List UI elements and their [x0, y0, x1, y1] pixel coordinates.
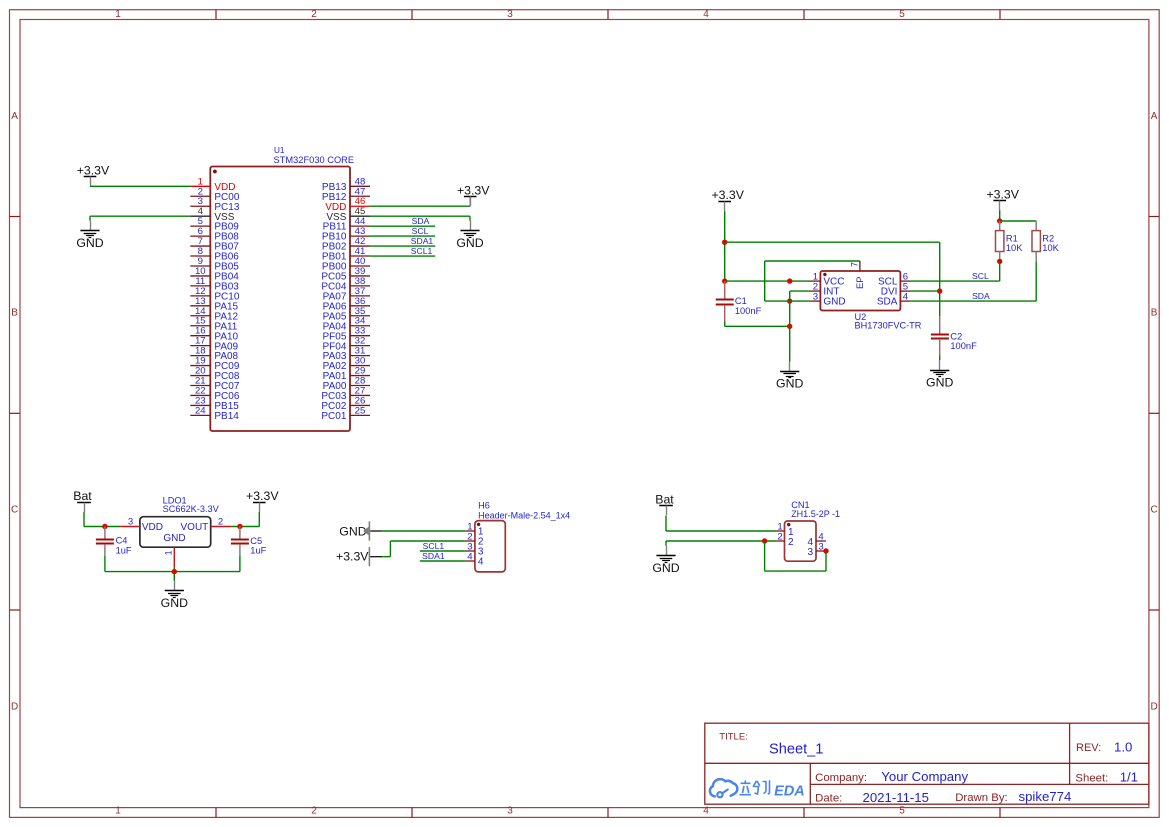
- U1 pin 29 PA01 (right): [323, 366, 370, 383]
- node junction pull-up rail: [997, 218, 1002, 223]
- svg-text:A: A: [11, 111, 18, 122]
- svg-text:1uF: 1uF: [116, 545, 132, 555]
- U1 pin 36 PA06 (right): [323, 296, 370, 313]
- U1 pin 24 PB14 (left): [190, 405, 239, 422]
- svg-text:1.0: 1.0: [1114, 740, 1132, 755]
- svg-text:U1: U1: [274, 146, 285, 155]
- node junction CN1 pin 3: [823, 548, 828, 553]
- column tick bottom 2: [411, 808, 413, 818]
- power +3.3V (sensor supply): [711, 188, 744, 211]
- U1 pin 30 PA02 (right): [323, 356, 370, 373]
- wire C2 to GND: [939, 356, 941, 361]
- svg-text:100nF: 100nF: [735, 306, 762, 316]
- svg-text:3: 3: [813, 291, 818, 302]
- ground GND (U1 left): [76, 221, 103, 250]
- svg-text:spike774: spike774: [1019, 789, 1072, 804]
- wire Bat to CN1 pin 1: [666, 516, 775, 532]
- svg-text:5: 5: [899, 806, 905, 817]
- svg-text:EDA: EDA: [773, 784, 807, 800]
- U1 pin 38 PC04 (right): [321, 276, 370, 293]
- ground GND (CN1): [652, 546, 679, 575]
- U1 pin 17 PA09 (left): [190, 336, 238, 353]
- U1 pin 39 PC05 (right): [321, 266, 370, 283]
- U1 pin 15 PA11 (left): [190, 316, 238, 333]
- wire U2 pin 2 INT loop: [790, 291, 811, 301]
- power flag Bat (LDO input): [73, 489, 92, 512]
- wire rail to R2: [1000, 220, 1036, 222]
- wire R2 to SDA net: [910, 262, 1036, 301]
- wire C5 to ground rail: [239, 556, 241, 572]
- wire EP loop: [765, 261, 860, 301]
- wire Bat to LDO VDD: [84, 512, 120, 527]
- svg-text:SCL1: SCL1: [411, 246, 433, 256]
- LDO1 pin 1 GND (bottom): [164, 547, 175, 567]
- column tick bottom 3: [607, 808, 609, 818]
- node junction at ground rail: [787, 324, 792, 329]
- svg-text:BH1730FVC-TR: BH1730FVC-TR: [855, 320, 922, 330]
- U1 pin 13 PA15 (left): [190, 296, 238, 313]
- capacitor C4 1uF: [96, 527, 132, 557]
- ground GND (U1 right): [456, 221, 483, 250]
- power flag Bat (CN1): [655, 493, 674, 515]
- svg-text:GND: GND: [161, 596, 188, 610]
- U1 pin 5 PB09 (left): [190, 216, 239, 233]
- wire top rail to DVI vertical: [725, 242, 940, 316]
- svg-text:+3.3V: +3.3V: [711, 188, 744, 202]
- node junction CN1 pin2 loop: [762, 538, 767, 543]
- U1 pin 27 PC03 (right): [321, 385, 370, 402]
- title block row divider 1: [705, 762, 1149, 764]
- svg-text:4: 4: [903, 291, 909, 302]
- U2 pin 5 DVI (right): [881, 281, 911, 297]
- svg-text:Sheet_1: Sheet_1: [769, 742, 823, 758]
- svg-text:H6: H6: [478, 501, 490, 511]
- column tick top 3: [607, 10, 609, 20]
- wire middle vertical to GND symbol: [789, 301, 791, 361]
- EasyEDA logo text 立创: [740, 780, 770, 794]
- wire LDO VOUT to +3.3V: [231, 512, 260, 527]
- svg-text:STM32F030 CORE: STM32F030 CORE: [274, 155, 355, 165]
- svg-text:C: C: [11, 504, 18, 515]
- svg-text:Bat: Bat: [655, 493, 674, 507]
- ground GND (C2): [926, 360, 953, 389]
- power +3.3V (pull-ups): [986, 187, 1019, 210]
- power +3.3V (U1 pin 46): [457, 184, 490, 207]
- capacitor C2 100nF: [931, 316, 977, 355]
- svg-text:SCL: SCL: [412, 226, 429, 236]
- U1 pin 25 PC01 (right): [321, 405, 370, 422]
- wire +3.3V port to H6 pin 2: [382, 541, 465, 557]
- svg-text:SCL: SCL: [972, 271, 989, 281]
- U1 pin 43 PB10 (right): [322, 226, 370, 243]
- wire LDO ground rail: [105, 567, 240, 581]
- U2 pin 1 VCC (left): [810, 271, 844, 287]
- svg-text:GND: GND: [776, 377, 803, 391]
- U1 pin 8 PB06 (left): [190, 246, 239, 263]
- column tick bottom 4: [803, 808, 805, 818]
- wire U1 pin net SDA: [370, 225, 435, 227]
- U1 pin 18 PA08 (left): [190, 346, 238, 363]
- svg-text:GND: GND: [823, 297, 845, 308]
- svg-text:REV:: REV:: [1076, 742, 1101, 754]
- svg-text:VDD: VDD: [142, 522, 163, 533]
- wire +3.3V to U1 pin 1: [90, 185, 190, 187]
- wire U1 pin net SDA1: [370, 245, 435, 247]
- LDO1 pin 3 VDD: [120, 517, 163, 534]
- svg-text:2: 2: [311, 806, 317, 817]
- svg-text:Sheet:: Sheet:: [1075, 773, 1108, 785]
- op-amp U2 body BH1730FVC-TR: [820, 271, 900, 311]
- LDO1 pin 2 VOUT: [181, 517, 231, 534]
- svg-text:4: 4: [467, 551, 473, 562]
- svg-text:10K: 10K: [1006, 243, 1023, 253]
- capacitor C1 100nF: [716, 281, 762, 321]
- node junction GND wire: [787, 298, 792, 303]
- connector H6 body Header-Male-2.54_1x4: [475, 521, 505, 572]
- column tick top 1: [215, 10, 217, 20]
- node junction R1 bottom: [997, 259, 1002, 264]
- svg-text:3: 3: [818, 541, 823, 552]
- U1 pin 1 VDD (left): [190, 176, 235, 193]
- svg-text:7: 7: [849, 262, 859, 267]
- U1 pin 6 PB08 (left): [190, 226, 239, 243]
- svg-text:1uF: 1uF: [250, 546, 266, 556]
- node junction LDO ground: [172, 569, 177, 574]
- column tick top 5: [999, 10, 1001, 20]
- svg-text:GND: GND: [926, 375, 953, 389]
- svg-text:SDA1: SDA1: [411, 236, 434, 246]
- svg-text:2: 2: [218, 517, 223, 528]
- svg-text:4: 4: [703, 806, 709, 817]
- row tick right A/B: [1149, 216, 1159, 218]
- svg-text:3: 3: [128, 517, 133, 528]
- U1 pin 11 PB03 (left): [190, 276, 239, 293]
- title block row divider 2: [810, 783, 1149, 785]
- svg-text:Header-Male-2.54_1x4: Header-Male-2.54_1x4: [478, 511, 570, 521]
- svg-text:+3.3V: +3.3V: [986, 187, 1019, 201]
- row tick right B/C: [1149, 412, 1159, 414]
- row tick left A/B: [10, 216, 21, 218]
- svg-text:3: 3: [507, 9, 513, 20]
- U1 pin 31 PA03 (right): [323, 346, 370, 363]
- svg-text:GND: GND: [76, 236, 103, 250]
- wire U1 pin net SCL: [370, 235, 435, 237]
- wire C1 bottom to ground rail: [725, 321, 790, 326]
- U1 pin 41 PB01 (right): [322, 246, 370, 263]
- svg-text:Date:: Date:: [815, 793, 842, 805]
- svg-text:4: 4: [703, 9, 709, 20]
- node junction at top rail: [722, 240, 727, 245]
- capacitor C5 1uF: [231, 527, 267, 557]
- svg-text:4: 4: [478, 557, 484, 568]
- U1 pin 2 PC00 (left): [190, 186, 240, 203]
- U1 pin 47 PB12 (right): [322, 186, 370, 203]
- svg-text:5: 5: [899, 9, 905, 20]
- svg-text:VOUT: VOUT: [181, 522, 209, 533]
- title block rev/sheet column divider: [1069, 723, 1071, 784]
- U1 pin 45 VSS (right): [326, 206, 370, 223]
- U1 pin 7 PB07 (left): [190, 236, 239, 253]
- svg-text:GND: GND: [652, 561, 679, 575]
- power +3.3V (LDO output): [246, 489, 279, 512]
- ground GND (U2): [776, 362, 803, 391]
- column tick top 2: [411, 10, 413, 20]
- svg-text:SDA: SDA: [877, 297, 898, 308]
- svg-text:2: 2: [788, 537, 794, 548]
- wire net SDA1 to H6 pin 4: [420, 560, 465, 562]
- svg-text:B: B: [11, 308, 18, 319]
- node junction VCC branch: [722, 278, 727, 283]
- U1 pin 12 PC10 (left): [190, 286, 240, 303]
- voltage regulator LDO1 SC662K-3.3V body: [140, 517, 211, 548]
- wire +3.3V to resistor rail: [999, 210, 1001, 221]
- wire R1 to SCL net: [910, 261, 999, 281]
- svg-text:+3.3V: +3.3V: [77, 164, 110, 178]
- title block outline: [705, 723, 1149, 804]
- row tick left C/D: [10, 609, 21, 611]
- svg-text:100nF: 100nF: [950, 341, 977, 351]
- column tick bottom 1: [215, 808, 217, 818]
- EasyEDA logo cloud: [710, 779, 737, 797]
- U1 pin 14 PA12 (left): [190, 306, 238, 323]
- H6 pin 2: [465, 531, 484, 547]
- svg-text:GND: GND: [339, 524, 366, 538]
- row tick left B/C: [10, 412, 21, 414]
- wire CN1 pin 3 loop to pin 2 net: [765, 541, 826, 571]
- wire GND port to H6 pin 1: [382, 530, 465, 532]
- U1 pin 3 PC13 (left): [190, 196, 240, 213]
- wire U2 pin 3 GND: [765, 300, 811, 302]
- U1 pin 33 PF05 (right): [322, 326, 370, 343]
- U2 pin 6 SCL (right): [878, 271, 910, 287]
- svg-text:SC662K-3.3V: SC662K-3.3V: [163, 504, 220, 514]
- svg-text:EP: EP: [854, 276, 865, 289]
- U1 pin 40 PB00 (right): [322, 256, 370, 273]
- wire net SCL1 to H6 pin 3: [420, 550, 465, 552]
- U1 pin 34 PA04 (right): [323, 316, 370, 333]
- U1 pin 21 PC07 (left): [190, 376, 240, 393]
- wire VCC rail to U2 pin 1: [725, 280, 811, 282]
- svg-text:D: D: [11, 702, 18, 713]
- svg-text:PB14: PB14: [214, 411, 239, 422]
- svg-text:Drawn By:: Drawn By:: [955, 792, 1008, 804]
- svg-text:PC01: PC01: [321, 411, 346, 422]
- U2 pin 2 INT (left): [810, 281, 839, 297]
- svg-text:2: 2: [311, 9, 317, 20]
- CN1 pin 4 (right): [807, 531, 826, 548]
- node junction C4/VDD: [102, 524, 107, 529]
- svg-text:2: 2: [777, 531, 782, 542]
- svg-text:10K: 10K: [1042, 243, 1059, 253]
- U1 pin 26 PC02 (right): [321, 395, 370, 412]
- svg-text:+3.3V: +3.3V: [246, 489, 279, 503]
- svg-text:+3.3V: +3.3V: [457, 184, 490, 198]
- U1 pin 48 PB13 (right): [322, 176, 370, 193]
- svg-text:2021-11-15: 2021-11-15: [863, 790, 929, 805]
- H6 pin 4: [465, 551, 484, 567]
- wire U1 pin 46 VDD to +3.3V: [370, 197, 470, 206]
- power +3.3V (U1 pin 1): [77, 164, 110, 187]
- svg-text:3: 3: [807, 547, 813, 558]
- svg-text:SDA: SDA: [972, 291, 990, 301]
- ground GND (LDO): [161, 581, 188, 610]
- U2 pin 3 GND (left): [810, 291, 845, 307]
- CN1 pin 3 (right): [807, 541, 826, 558]
- svg-text:D: D: [1150, 702, 1157, 713]
- svg-text:SDA1: SDA1: [422, 551, 445, 561]
- wire +3.3V down to VCC rail: [724, 211, 726, 281]
- U1 pin 9 PB05 (left): [190, 256, 239, 273]
- wire U1 pin 45 VSS to GND: [370, 216, 470, 221]
- U1 pin 23 PB15 (left): [190, 395, 239, 412]
- resistor R2 10K: [1032, 221, 1060, 262]
- U2 pin-1 indicator dot: [823, 273, 826, 276]
- svg-text:+3.3V: +3.3V: [336, 549, 369, 563]
- resistor R1 10K: [996, 221, 1024, 261]
- svg-text:Company:: Company:: [815, 772, 867, 784]
- svg-text:GND: GND: [456, 236, 483, 250]
- title block logo cell divider: [809, 763, 811, 804]
- svg-text:C4: C4: [116, 536, 128, 546]
- node junction DVI: [937, 288, 942, 293]
- U1 pin 22 PC06 (left): [190, 385, 240, 402]
- svg-text:GND: GND: [163, 533, 185, 544]
- svg-text:C1: C1: [735, 296, 747, 306]
- U1 pin 16 PA10 (left): [190, 326, 238, 343]
- CN1 pin-1 indicator dot: [787, 523, 790, 526]
- net port GND (H6 pin 1): [339, 521, 382, 540]
- svg-text:1: 1: [115, 806, 121, 817]
- U1 pin-1 indicator dot: [213, 170, 217, 174]
- connector CN1 body ZH1.5-2P -1: [785, 521, 817, 561]
- U1 pin 28 PA00 (right): [323, 376, 370, 393]
- wire U1 pin net SCL1: [370, 255, 435, 257]
- svg-text:1: 1: [115, 9, 121, 20]
- U1 pin 44 PB11 (right): [323, 216, 370, 233]
- U2 pin 4 SDA (right): [877, 291, 911, 307]
- wire U2 pin 5 DVI to vertical: [910, 290, 939, 292]
- node junction on VCC wire: [787, 278, 792, 283]
- U1 pin 32 PF04 (right): [322, 336, 370, 353]
- CN1 pin 1 (left): [775, 521, 794, 538]
- svg-text:3: 3: [507, 806, 513, 817]
- U1 pin 19 PC09 (left): [190, 356, 240, 373]
- H6 pin 1: [465, 521, 484, 537]
- U1 pin 20 PC08 (left): [190, 366, 240, 383]
- U1 pin 4 VSS (left): [190, 206, 234, 223]
- node junction C5/VOUT: [237, 524, 242, 529]
- wire U1 pin 4 VSS to GND: [90, 216, 190, 221]
- U1 pin 35 PA05 (right): [323, 306, 370, 323]
- svg-text:C: C: [1150, 504, 1157, 515]
- wire C4 to ground rail: [104, 556, 106, 572]
- net port +3.3V (H6 pin 2): [336, 547, 382, 566]
- svg-text:25: 25: [355, 405, 366, 416]
- H6 pin-1 indicator dot: [477, 523, 480, 526]
- svg-text:TITLE:: TITLE:: [719, 732, 748, 743]
- row tick right C/D: [1149, 609, 1159, 611]
- wire GND to CN1 pin 2: [666, 541, 775, 546]
- svg-text:1: 1: [164, 550, 174, 555]
- CN1 pin 2 (left): [775, 531, 794, 548]
- column tick bottom 5: [999, 808, 1001, 818]
- svg-text:A: A: [1151, 111, 1158, 122]
- H6 pin 3: [465, 541, 484, 557]
- svg-text:1/1: 1/1: [1120, 770, 1138, 785]
- op-amp U1 body STM32F030 CORE: [210, 167, 350, 432]
- column tick top 4: [803, 10, 805, 20]
- svg-text:ZH1.5-2P -1: ZH1.5-2P -1: [791, 509, 840, 519]
- svg-text:24: 24: [195, 405, 206, 416]
- U2 pin 7 EP (top): [849, 261, 865, 289]
- svg-text:Your Company: Your Company: [881, 769, 968, 784]
- svg-text:SDA: SDA: [412, 216, 430, 226]
- U1 pin 46 VDD (right): [325, 196, 370, 213]
- U1 pin 37 PA07 (right): [323, 286, 370, 303]
- svg-text:Bat: Bat: [73, 489, 92, 503]
- U1 pin 10 PB04 (left): [190, 266, 239, 283]
- U1 pin 42 PB02 (right): [322, 236, 370, 253]
- svg-text:B: B: [1151, 308, 1158, 319]
- svg-text:SCL1: SCL1: [423, 541, 445, 551]
